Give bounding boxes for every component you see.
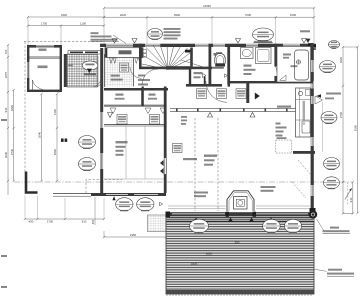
svg-text:700: 700 bbox=[4, 49, 8, 54]
svg-text:1500: 1500 bbox=[290, 13, 297, 17]
svg-text:7000: 7000 bbox=[245, 13, 252, 17]
svg-text:455: 455 bbox=[91, 219, 95, 224]
svg-text:1700: 1700 bbox=[47, 219, 54, 223]
svg-text:2275: 2275 bbox=[4, 71, 8, 78]
svg-text:1820: 1820 bbox=[10, 104, 14, 111]
svg-text:1750: 1750 bbox=[41, 22, 48, 26]
svg-text:910: 910 bbox=[4, 107, 8, 112]
svg-text:2730: 2730 bbox=[339, 111, 343, 118]
svg-text:2020: 2020 bbox=[120, 13, 127, 17]
svg-text:14560: 14560 bbox=[203, 4, 211, 8]
svg-text:910: 910 bbox=[349, 197, 353, 202]
svg-text:1820: 1820 bbox=[191, 262, 198, 266]
svg-text:1100: 1100 bbox=[80, 22, 86, 26]
svg-text:3640: 3640 bbox=[4, 151, 8, 158]
svg-text:3420: 3420 bbox=[61, 13, 68, 17]
svg-text:8190: 8190 bbox=[354, 124, 358, 131]
svg-text:1820: 1820 bbox=[53, 148, 57, 155]
svg-text:910: 910 bbox=[82, 219, 87, 223]
svg-text:450: 450 bbox=[29, 219, 34, 223]
svg-text:1820: 1820 bbox=[206, 252, 213, 256]
svg-text:1950: 1950 bbox=[130, 233, 137, 237]
svg-text:2730: 2730 bbox=[10, 148, 14, 155]
svg-text:3900: 3900 bbox=[174, 13, 181, 17]
svg-text:1820: 1820 bbox=[339, 56, 343, 63]
svg-text:3640: 3640 bbox=[38, 131, 42, 138]
svg-text:300: 300 bbox=[235, 241, 240, 245]
svg-text:1130: 1130 bbox=[53, 109, 57, 115]
